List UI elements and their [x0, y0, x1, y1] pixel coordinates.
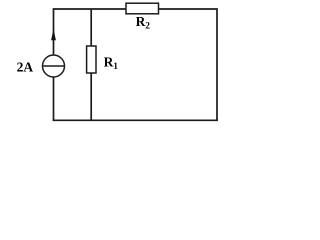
wire: bottom: [53, 119, 218, 121]
wire: middle branch lower: [90, 72, 92, 120]
svg-text:R1: R1: [104, 55, 119, 72]
wire: middle branch upper: [90, 9, 92, 47]
wire: top-left segment from top-left corner to R2: [54, 9, 127, 121]
resistor R2 body: [126, 3, 159, 14]
wire: top-right segment from R2 to right side and down to bottom: [158, 9, 217, 121]
current source I1 2A: circle with horizontal bar: [43, 55, 65, 77]
svg-text:R2: R2: [136, 14, 151, 31]
current direction arrow (pointing up): [51, 29, 56, 40]
svg-text:2A: 2A: [17, 60, 34, 75]
resistor R1 body: [87, 46, 96, 73]
